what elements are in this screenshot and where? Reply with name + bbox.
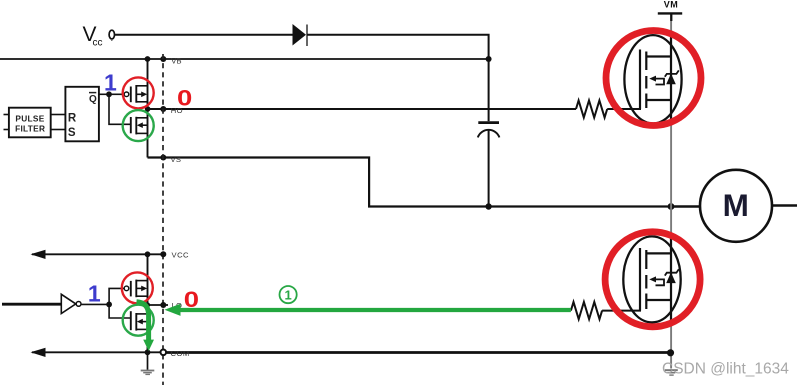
ground left [141,352,155,375]
pulse filter box [4,108,51,138]
pin COM terminal [161,350,167,356]
svg-text:cc: cc [93,38,103,49]
wire VM rail gray [670,13,672,368]
annotation circled 1 [280,286,297,303]
node gate junction top [106,91,112,97]
node COM source junction [667,349,674,356]
IC boundary dashed line [162,54,164,385]
wire VB rail [0,58,489,60]
node VS cap junction [485,203,491,209]
svg-text:CSDN @liht_1634: CSDN @liht_1634 [662,361,789,378]
wire pulse filter to latch [51,114,66,116]
node gate junction bottom [106,302,112,308]
inverter U2 [2,294,109,313]
wire internal rail top driver [147,59,149,158]
transistor M1 PMOS driver top [109,85,148,103]
node Vcc terminal [83,23,115,49]
transistor M3 PMOS driver bottom [109,280,147,305]
wire VS line with jog [148,158,672,207]
annotation green circle M4 [123,305,154,336]
transistor M4 NMOS driver bottom [109,304,147,330]
svg-text:M: M [723,187,749,223]
wire Vcc to diode [115,34,293,36]
annotation red circle M3 [122,272,153,303]
annotation green curved arrow to ground [137,302,155,351]
diode D1 bootstrap [293,24,308,46]
svg-text:VB: VB [171,57,182,66]
pin LO [160,302,166,308]
resistor R1 gate [576,100,607,117]
transistor Q1 high-side MOSFET [624,35,681,123]
annotation red circle M1 [123,77,154,108]
wire COM line with left arrow [31,348,164,357]
node rail HO junction [145,106,151,112]
pin VB [160,56,166,62]
transistor M2 NMOS driver top [109,94,148,134]
svg-text:S: S [68,127,76,139]
svg-text:1: 1 [104,69,117,95]
svg-text:1: 1 [88,280,101,306]
pin VS [160,155,166,161]
svg-text:HO: HO [171,106,183,115]
wire VCC line with left arrow [31,250,167,259]
node rail LO junction [144,302,150,308]
wire LO stub [148,304,169,306]
annotation red circle Q1 [606,31,701,126]
node VB rail junction [145,56,151,62]
annotation green arrow LO [165,304,571,316]
node VS output junction [668,203,675,210]
transistor Q2 low-side MOSFET [623,236,680,322]
wire R2 to gate [602,310,641,312]
svg-text:COM: COM [171,349,190,358]
svg-text:Q: Q [89,94,97,105]
wire COM to low-side source [166,351,671,354]
wire Qbar output [99,93,109,95]
annotation green circle M2 [123,110,154,141]
svg-text:1: 1 [284,287,291,302]
svg-text:FILTER: FILTER [15,124,45,134]
annotation red circle Q2 [605,232,700,327]
latch U1 RS [65,87,99,142]
svg-text:R: R [68,112,77,124]
node VB cap junction [486,56,492,62]
pin HO [160,106,166,112]
svg-text:VM: VM [664,0,679,9]
wire diode to cap top corner [307,35,489,59]
resistor R2 gate low [571,302,602,319]
motor M [674,170,797,242]
capacitor C1 bootstrap [478,59,500,207]
svg-text:VCC: VCC [172,250,190,259]
svg-text:VS: VS [171,155,182,164]
wire internal rail bottom driver [147,254,149,352]
ground right [665,369,678,376]
wire R1 to gate [607,108,641,110]
wire HO line [148,108,577,110]
svg-text:PULSE: PULSE [15,114,44,124]
power VM [658,0,682,21]
